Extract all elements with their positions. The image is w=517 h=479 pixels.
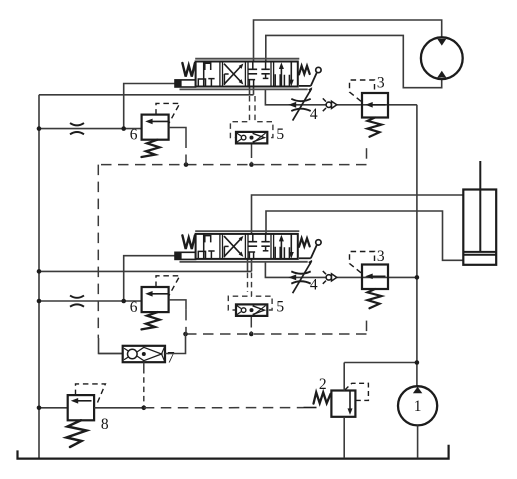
svg-text:5: 5 — [276, 126, 284, 143]
valve 2 tank wire — [343, 417, 345, 458]
relief valve 8 spring — [67, 420, 87, 447]
lower check valve 5 drain stem — [250, 316, 252, 334]
main pressure riser wire — [416, 105, 418, 387]
upper drain gallery (dashed) — [98, 148, 366, 164]
junction — [121, 126, 126, 131]
check valve 5 lower ball and seat — [237, 305, 266, 315]
valve lower bottom mounting rail — [180, 261, 308, 263]
motor bottom triangle — [437, 71, 446, 78]
valve upper position-2 symbol (crossed flow) — [224, 64, 243, 86]
check valve 5 upper ball and seat — [237, 133, 266, 143]
valve upper left return spring — [182, 63, 195, 77]
valve upper right return spring — [299, 66, 310, 75]
junction — [37, 406, 42, 411]
pilot check valve 5 lower body — [236, 304, 267, 316]
valve 2 pilot line (dashed) — [345, 383, 369, 400]
cylinder body — [463, 190, 496, 265]
junction — [249, 332, 254, 337]
throttle valve 4 upper restriction arcs — [291, 99, 310, 111]
valve 2 body — [331, 391, 355, 417]
svg-text:6: 6 — [130, 127, 138, 144]
lower drain gallery (dashed) — [181, 321, 367, 334]
fixed orifice upper — [70, 123, 84, 134]
relief valve 3 lower body — [362, 265, 388, 290]
lower valve T-port stubs — [248, 259, 252, 272]
valve upper left port block — [175, 80, 196, 87]
upper valve T-return wire — [39, 94, 254, 96]
junction — [142, 406, 147, 411]
pump 1 suction wire — [417, 425, 419, 458]
relief valve 3 lower spring — [368, 289, 382, 308]
relief valve 8 outlet wire — [94, 407, 144, 409]
valve upper manual lever — [299, 67, 321, 86]
left return bus wire — [38, 95, 40, 458]
valve lower left return spring — [182, 235, 195, 249]
valve 2 spring — [314, 392, 331, 403]
check valve 7 body — [123, 346, 165, 362]
directional valve upper body (4 positions) — [196, 62, 298, 87]
drain drop wire (dashed) — [97, 165, 99, 338]
upper valve T-port stubs — [250, 87, 254, 95]
relief valve 3 upper spring — [368, 118, 382, 137]
relief valve 8 inlet wire — [39, 407, 68, 409]
valve upper position-1 symbol — [198, 62, 214, 87]
svg-text:8: 8 — [101, 416, 109, 433]
relief valve 6 lower internal arrow — [145, 291, 168, 297]
svg-text:1: 1 — [414, 398, 422, 415]
remote pilot wire to valve 2 (dashed) — [144, 407, 304, 409]
relief valve 3 upper body — [362, 93, 388, 118]
pump 1 flow triangle — [413, 387, 422, 394]
junction — [415, 275, 420, 280]
check ball with seat (upper) — [323, 98, 337, 111]
wire lower-valve-A to cylinder head — [252, 195, 464, 234]
directional valve lower body (4 positions) — [196, 234, 298, 259]
relief valve 6 lower spring — [142, 312, 160, 329]
pilot check valve 5 upper body — [236, 132, 267, 144]
relief valve 6 lower vent line — [169, 300, 186, 334]
junction — [37, 269, 42, 274]
relief valve 3 lower internal arrow — [365, 274, 385, 280]
motor top triangle — [437, 39, 446, 46]
valve upper position-3 symbol (closed centre) — [248, 62, 270, 87]
valve lower manual lever — [299, 240, 321, 259]
svg-text:7: 7 — [167, 350, 175, 367]
lower orifice branch wire — [39, 300, 142, 302]
valve 2 spring seat line — [304, 407, 317, 409]
svg-text:3: 3 — [377, 75, 385, 92]
junction — [37, 126, 42, 131]
check ball with seat (lower) — [323, 271, 337, 284]
svg-text:5: 5 — [276, 298, 284, 315]
bottom tank line — [18, 445, 449, 459]
relief valve 3 upper pilot line (dashed) — [350, 80, 375, 101]
wire valve-A to motor top — [254, 20, 442, 62]
hydraulic motor circle — [421, 37, 463, 79]
check valve 7 ball and seat — [124, 347, 165, 361]
throttle valve 4 lower adjustment arrow (slash) — [293, 260, 313, 293]
valve lower position-2 symbol (crossed flow) — [224, 236, 243, 258]
check valve 7 pilot stem (dashed) — [143, 362, 145, 408]
relief valve 6 upper internal arrow — [145, 119, 168, 125]
valve upper top mounting rail — [195, 58, 299, 60]
throttle valve 4 upper adjustment arrow (slash) — [293, 87, 313, 120]
relief valve 8 pilot line (dashed) — [76, 384, 106, 406]
upper check valve 5 dashed passages — [230, 96, 273, 138]
throttle valve 4 lower restriction arcs — [291, 271, 310, 283]
svg-text:4: 4 — [310, 106, 318, 123]
valve lower top mounting rail — [195, 230, 299, 232]
pump 1 circle — [398, 386, 437, 425]
valve lower position-1 symbol — [198, 234, 214, 259]
relief valve 3 upper internal arrow — [365, 102, 385, 108]
relief valve 6 lower body — [142, 287, 169, 312]
valve 2 supply wire — [343, 363, 345, 391]
junction — [37, 299, 42, 304]
valve lower position-3 symbol (closed centre) — [248, 234, 270, 259]
wire lower-valve-B to cylinder rod end — [266, 211, 463, 260]
upper valve left-port wire — [124, 84, 175, 129]
junction — [249, 162, 254, 167]
svg-text:3: 3 — [377, 248, 385, 265]
check valve 7 outlet wire — [165, 334, 186, 354]
valve lower right return spring — [299, 238, 310, 247]
relief valve 8 body — [68, 395, 94, 420]
valve 2 internal arrow — [348, 392, 353, 415]
cylinder piston — [463, 252, 496, 255]
svg-text:2: 2 — [319, 376, 327, 393]
valve upper position-4 symbol (parallel flow) — [275, 62, 294, 87]
relief valve 8 internal arrow — [71, 398, 92, 404]
junction — [184, 162, 189, 167]
lower supply wire — [265, 262, 417, 278]
lower valve T-return wire — [39, 270, 252, 272]
drain drop to check valve 7 — [99, 338, 123, 354]
throttle valve 4 lower flow arrow — [288, 275, 296, 281]
valve lower position-4 symbol (parallel flow) — [275, 234, 294, 259]
junction — [415, 360, 420, 365]
lower check valve 5 dashed passages — [228, 273, 272, 310]
upper supply wire — [265, 89, 417, 104]
relief valve 6 upper pilot line (dashed) — [156, 103, 180, 123]
throttle valve 4 upper flow arrow — [288, 102, 296, 108]
wire pump branch to valve 2 — [344, 362, 417, 364]
fixed orifice lower — [70, 296, 84, 307]
svg-text:4: 4 — [310, 277, 318, 294]
lower valve left-port wire — [124, 256, 175, 301]
valve lower left port block — [175, 252, 196, 259]
junction — [121, 299, 126, 304]
relief valve 6 upper spring — [142, 140, 160, 157]
wire valve-B to motor bottom — [266, 35, 442, 87]
check valve 7 inlet wire — [99, 353, 123, 355]
relief valve 6 lower pilot line (dashed) — [156, 276, 180, 296]
upper orifice branch wire — [39, 128, 142, 130]
valve upper bottom mounting rail — [180, 88, 308, 90]
relief valve 3 lower pilot line (dashed) — [350, 252, 375, 273]
upper check valve 5 drain stem — [251, 143, 253, 164]
cylinder piston rod — [479, 161, 481, 252]
relief valve 6 upper vent line — [169, 128, 186, 165]
relief valve 6 upper body — [142, 115, 169, 140]
junction — [183, 332, 188, 337]
svg-text:6: 6 — [130, 299, 138, 316]
